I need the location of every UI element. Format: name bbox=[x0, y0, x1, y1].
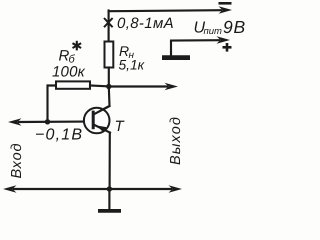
label Uпит 9В bbox=[194, 17, 247, 37]
wire base junction to Rб bbox=[48, 86, 57, 122]
wire Rб to collector node bbox=[90, 84, 109, 87]
svg-text:5,1к: 5,1к bbox=[119, 58, 145, 73]
node emitter ground junction bbox=[107, 186, 112, 191]
transistor T bbox=[84, 106, 110, 133]
svg-text:Выход: Выход bbox=[168, 116, 184, 165]
label + bbox=[223, 43, 232, 52]
svg-text:T: T bbox=[115, 118, 126, 135]
node collector junction bbox=[106, 84, 111, 89]
ground (supply plus terminal) bbox=[162, 55, 190, 60]
wire base with left arrow bbox=[8, 118, 84, 125]
svg-text:пит: пит bbox=[204, 26, 223, 37]
svg-text:0,8-1мА: 0,8-1мА bbox=[117, 15, 174, 32]
label Rн bbox=[119, 43, 135, 61]
node base junction bbox=[45, 119, 50, 124]
resistor Rб 100к bbox=[56, 81, 90, 88]
label asterisk bbox=[73, 41, 82, 51]
wire emitter to ground line bbox=[109, 133, 111, 189]
resistor Rн 5,1к bbox=[105, 42, 114, 68]
wire collector bbox=[94, 87, 110, 115]
svg-text:Вход: Вход bbox=[9, 143, 25, 179]
label Rб bbox=[59, 48, 76, 66]
wire common ground line with arrows both ends bbox=[3, 185, 182, 192]
wire ground stub bbox=[108, 189, 110, 210]
svg-text:−0,1В: −0,1В bbox=[35, 127, 83, 144]
wire supply rail to Rн bbox=[108, 11, 110, 43]
wire output tap with right arrow bbox=[109, 83, 178, 90]
minus polarity label bbox=[219, 2, 232, 5]
wire negative supply rail with right arrow bbox=[109, 6, 232, 13]
node X current measurement cross mark bbox=[104, 18, 113, 27]
svg-text:100к: 100к bbox=[52, 64, 86, 81]
svg-text:9В: 9В bbox=[223, 17, 246, 37]
wire positive supply lead with right arrow bbox=[171, 36, 230, 56]
ground (common) bbox=[98, 209, 121, 213]
wire Rн to collector node bbox=[108, 68, 110, 88]
